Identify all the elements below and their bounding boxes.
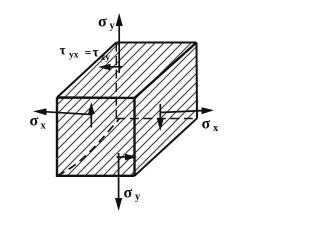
tau_xy arrow on left face (points up) [88, 102, 95, 128]
svg-text:y: y [135, 192, 141, 203]
svg-text:=: = [85, 46, 92, 60]
wire: top ridge depth edge [135, 43, 197, 99]
wire: back right edge [196, 43, 199, 119]
svg-text:τ: τ [60, 43, 67, 58]
sigma_y top arrow [116, 13, 123, 73]
sigma_x left arrow [33, 108, 91, 115]
node hidden back-bottom edge (dashed) [116, 118, 197, 120]
tau_yx arrow on bottom face (points right) [117, 154, 138, 161]
svg-text:yx: yx [69, 51, 79, 61]
stress element box silhouette (hatched) [57, 43, 197, 176]
node hidden bottom-left depth edge (dashed) [57, 119, 120, 176]
svg-text:x: x [213, 123, 219, 134]
svg-text:σ: σ [202, 116, 211, 133]
wire: top-left depth edge [57, 43, 116, 98]
wire: front face outline [57, 98, 135, 176]
sigma_x right arrow [160, 107, 214, 114]
tau_xy arrow on right face (points down) [157, 104, 164, 131]
node hidden back-left edge (dashed) [115, 43, 117, 119]
svg-text:τ: τ [93, 45, 100, 60]
svg-text:y: y [110, 21, 116, 32]
svg-text:xy: xy [101, 53, 111, 63]
svg-text:σ: σ [124, 185, 133, 202]
svg-text:x: x [41, 121, 47, 132]
svg-text:σ: σ [30, 113, 39, 130]
tau_yx arrow on top face (points left) [98, 64, 123, 71]
wire: bottom-right depth edge [135, 118, 198, 176]
wire: back top edge [116, 42, 196, 44]
sigma_y bottom arrow [115, 153, 122, 211]
svg-text:σ: σ [98, 14, 107, 31]
